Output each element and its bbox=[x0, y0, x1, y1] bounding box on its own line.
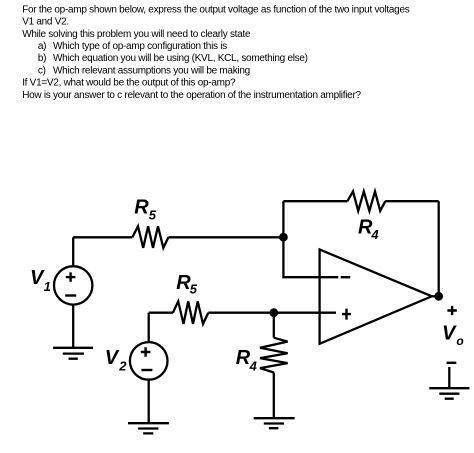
svg-text:1: 1 bbox=[44, 279, 51, 294]
V2 plus polarity bbox=[141, 347, 151, 356]
svg-text:2: 2 bbox=[118, 359, 127, 374]
op-amp U1 bbox=[320, 250, 432, 344]
output minus polarity bbox=[447, 362, 457, 364]
wire node A up to feedback bbox=[282, 201, 284, 237]
svg-text:o: o bbox=[456, 334, 463, 348]
resistor R5 (lower) bbox=[173, 301, 208, 324]
svg-text:R: R bbox=[236, 347, 251, 369]
svg-text:b): b) bbox=[38, 53, 46, 64]
svg-text:5: 5 bbox=[149, 207, 157, 222]
ground (R4) bbox=[254, 418, 295, 428]
wire R5 to node B and to non-inverting input bbox=[208, 312, 336, 314]
svg-text:R: R bbox=[134, 197, 149, 219]
V1 plus polarity bbox=[66, 272, 76, 281]
svg-text:Which relevant assumptions you: Which relevant assumptions you will be m… bbox=[53, 65, 250, 76]
wire feedback down to output bbox=[438, 201, 440, 296]
wire op-amp output bbox=[432, 295, 439, 297]
ground (output reference) bbox=[429, 388, 469, 399]
output plus polarity bbox=[447, 306, 456, 315]
ground (V2) bbox=[128, 423, 169, 433]
svg-text:4: 4 bbox=[249, 359, 258, 374]
wire feedback left segment bbox=[283, 200, 347, 202]
wire R4 to ground bbox=[273, 373, 275, 419]
svg-text:c): c) bbox=[38, 65, 46, 76]
V2 minus polarity bbox=[141, 369, 152, 371]
op-amp plus input symbol bbox=[342, 309, 351, 320]
svg-text:V1 and V2.: V1 and V2. bbox=[22, 17, 69, 28]
op-amp minus input symbol bbox=[341, 276, 351, 278]
ground (V1) bbox=[53, 348, 93, 359]
svg-text:a): a) bbox=[38, 41, 46, 52]
output node bbox=[434, 292, 443, 301]
wire V1 top bbox=[72, 237, 74, 266]
source V1 bbox=[54, 266, 92, 304]
svg-text:While solving this problem you: While solving this problem you will need… bbox=[22, 29, 251, 40]
svg-text:How is your answer to c releva: How is your answer to c relevant to the … bbox=[22, 90, 361, 101]
wire feedback right segment bbox=[385, 200, 438, 202]
resistor R4 (to ground) bbox=[260, 338, 288, 373]
node B bbox=[269, 308, 278, 317]
wire V2 top bbox=[148, 313, 150, 342]
svg-text:5: 5 bbox=[190, 282, 198, 297]
ground stem (output reference) bbox=[448, 367, 450, 388]
svg-text:Which type of op-amp configura: Which type of op-amp configuration this … bbox=[53, 41, 227, 52]
svg-text:V: V bbox=[442, 323, 457, 345]
wire R5 to node A bbox=[168, 236, 283, 238]
svg-text:V: V bbox=[105, 347, 120, 369]
wire V2 to R5 (lower) bbox=[149, 312, 173, 314]
wire node B down to R4 bbox=[273, 313, 275, 338]
wire V1 bottom bbox=[72, 304, 74, 347]
svg-text:4: 4 bbox=[370, 227, 379, 242]
wire V1 to R5 bbox=[73, 236, 132, 238]
wire node A down to inverting input bbox=[283, 237, 338, 277]
resistor R5 (top) bbox=[132, 226, 168, 248]
wire V2 bottom bbox=[148, 380, 150, 424]
V1 minus polarity bbox=[65, 294, 76, 296]
svg-text:For the op-amp shown below, ex: For the op-amp shown below, express the … bbox=[22, 4, 410, 15]
node A bbox=[279, 233, 288, 242]
resistor R4 (feedback) bbox=[347, 191, 385, 211]
source V2 bbox=[130, 342, 168, 380]
svg-text:If V1=V2, what would be the ou: If V1=V2, what would be the output of th… bbox=[22, 78, 236, 89]
svg-text:Which equation you will be usi: Which equation you will be using (KVL, K… bbox=[53, 53, 308, 64]
